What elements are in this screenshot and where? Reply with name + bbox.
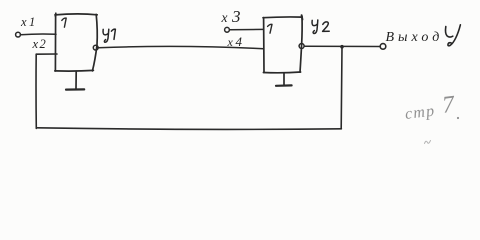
wire y2 output to output terminal	[305, 45, 380, 47]
logic element U1 (body, "1" gate)	[55, 13, 97, 71]
wire x2 pin (feedback entry)	[36, 53, 57, 55]
U2 function label "1"	[268, 24, 272, 33]
U1 function label "1"	[62, 18, 66, 27]
label y2 (handwritten)	[312, 20, 329, 33]
wire x1 terminal to U1 pin	[21, 33, 56, 36]
note "стр 7." (pencil)	[403, 91, 457, 123]
ground symbol at U2	[276, 73, 292, 86]
wire feedback: bottom run	[37, 128, 341, 130]
input terminal X1 (circle)	[16, 32, 21, 37]
label big "y" of output	[445, 25, 460, 46]
svg-text:стр: стр	[404, 102, 436, 123]
wire feedback: down from junction	[340, 47, 343, 129]
input terminal X3 (circle)	[225, 27, 230, 32]
inversion bubble at U2 output	[299, 44, 304, 49]
svg-text:4: 4	[236, 34, 243, 49]
wire feedback: up left side to x2	[35, 54, 37, 128]
svg-text:7: 7	[441, 91, 457, 118]
inversion bubble at U1 output	[93, 45, 98, 50]
svg-text:Выход: Выход	[386, 30, 444, 45]
svg-text:x: x	[227, 35, 234, 49]
output terminal (circle)	[380, 44, 386, 50]
svg-text:3: 3	[231, 7, 241, 26]
ground symbol at U1	[66, 71, 84, 89]
svg-text:x2: x2	[32, 37, 48, 51]
logic element U2 (body, "1" gate)	[263, 15, 302, 73]
label y1 (handwritten)	[103, 29, 115, 42]
junction node (feedback tap)	[340, 45, 344, 49]
svg-text:x: x	[221, 10, 228, 25]
faint smudge (scan artifact)	[425, 141, 431, 144]
wire y1 output to U2 input x4	[98, 46, 263, 48]
wire x3 terminal to U2 pin	[230, 28, 264, 30]
svg-text:x1: x1	[20, 15, 38, 29]
